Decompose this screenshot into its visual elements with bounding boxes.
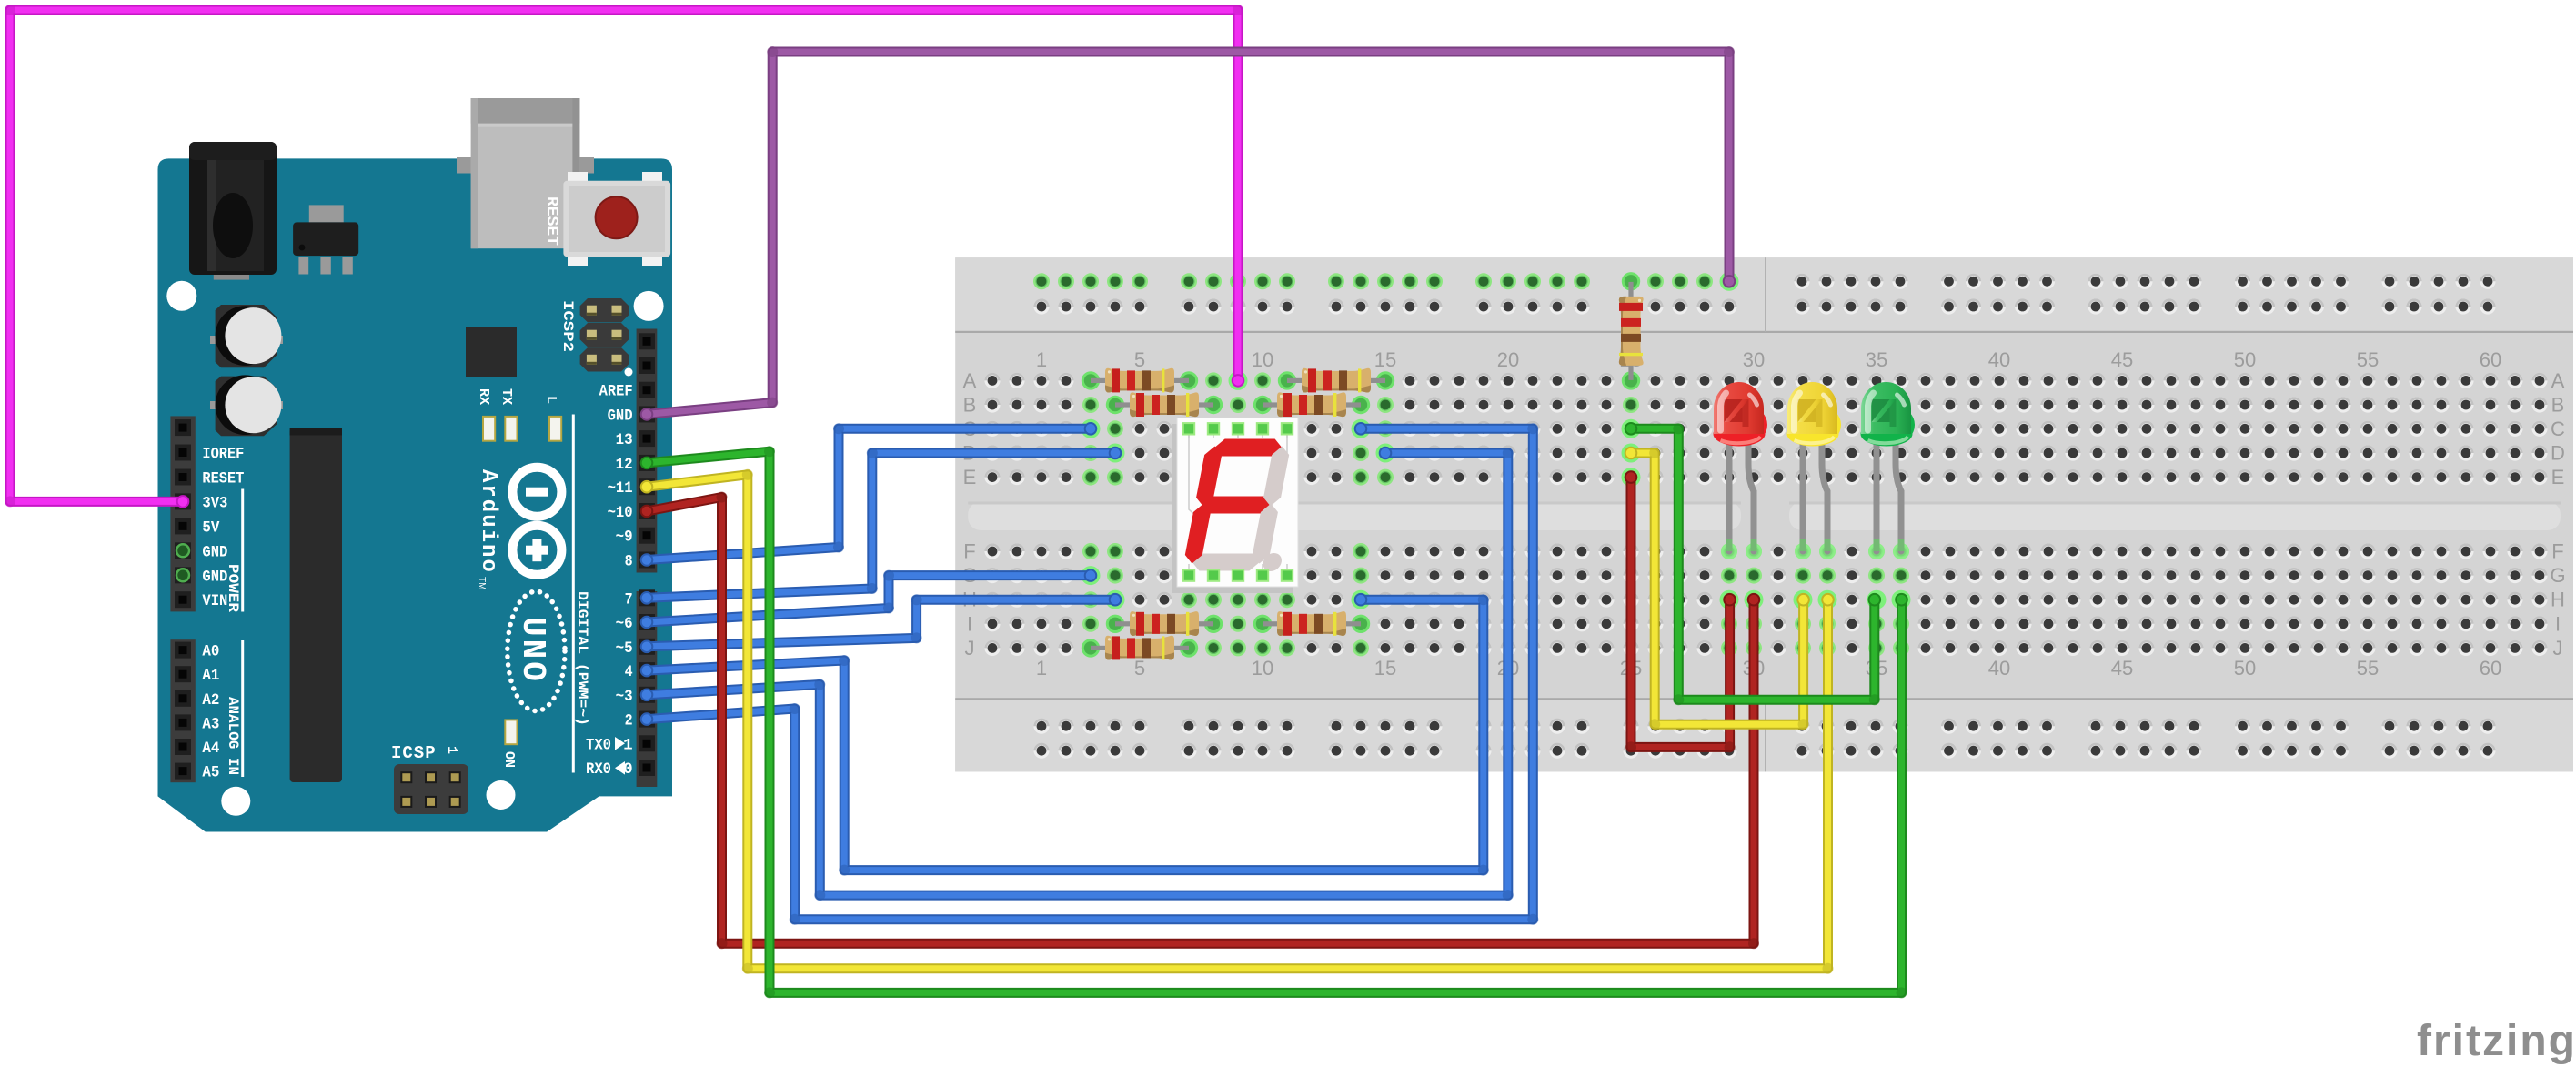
LED red (D10) legs xyxy=(1721,543,1737,559)
svg-text:RESET: RESET xyxy=(202,470,244,488)
capacitor C2 xyxy=(210,401,217,409)
svg-text:C: C xyxy=(2551,418,2565,440)
svg-text:~6: ~6 xyxy=(616,615,633,633)
svg-text:A4: A4 xyxy=(202,740,219,758)
7-segment display shadow xyxy=(1172,424,1293,593)
wire E25 to H29 xyxy=(1631,478,1730,748)
resistor R1 220 xyxy=(1082,371,1100,389)
LED green (D12) legs xyxy=(1868,543,1885,559)
svg-text:RX0: RX0 xyxy=(586,760,611,779)
Arduino logo xyxy=(512,468,561,517)
svg-text:GND: GND xyxy=(202,568,227,586)
reset button xyxy=(568,172,588,186)
svg-text:J: J xyxy=(2553,637,2563,659)
svg-text:40: 40 xyxy=(1988,657,2010,679)
svg-text:1: 1 xyxy=(1036,657,1047,679)
svg-text:15: 15 xyxy=(1374,657,1396,679)
wire D6 to G3 xyxy=(647,576,1091,622)
svg-text:45: 45 xyxy=(2111,657,2133,679)
svg-text:Arduino: Arduino xyxy=(476,469,500,574)
svg-text:2: 2 xyxy=(625,712,633,730)
svg-text:ANALOG IN: ANALOG IN xyxy=(225,697,241,775)
ATmega328 chip xyxy=(290,428,342,783)
svg-text:I: I xyxy=(967,612,972,635)
display pins xyxy=(1183,423,1194,434)
svg-text:1: 1 xyxy=(444,746,459,754)
digital header strip top xyxy=(637,329,658,573)
svg-text:F: F xyxy=(2551,540,2563,563)
ICSP header xyxy=(394,764,468,814)
svg-text:A3: A3 xyxy=(202,715,219,733)
svg-text:30: 30 xyxy=(1743,348,1765,371)
svg-text:DIGITAL (PWM=~): DIGITAL (PWM=~) xyxy=(574,591,590,726)
wire D8 to C3 xyxy=(647,428,1091,559)
svg-text:13: 13 xyxy=(616,431,633,449)
svg-text:50: 50 xyxy=(2234,657,2256,679)
LED green xyxy=(1861,382,1916,446)
svg-text:~10: ~10 xyxy=(608,504,633,522)
svg-text:A0: A0 xyxy=(202,643,219,661)
silkscreen lines xyxy=(572,415,575,773)
center channel xyxy=(968,502,1741,531)
svg-text:TX: TX xyxy=(498,388,514,405)
resistor R8 220 (GND rail to col 25) xyxy=(1622,371,1640,389)
svg-text:TM: TM xyxy=(477,577,487,589)
svg-text:ICSP2: ICSP2 xyxy=(559,300,576,352)
ICSP2 header xyxy=(580,298,629,322)
svg-text:A: A xyxy=(963,369,977,392)
svg-text:B: B xyxy=(2551,394,2565,417)
svg-text:~9: ~9 xyxy=(616,528,633,547)
svg-text:A5: A5 xyxy=(202,764,219,782)
power rails holes xyxy=(1033,273,2496,759)
svg-text:12: 12 xyxy=(616,456,633,474)
breadboard seam xyxy=(1765,257,1766,332)
svg-text:GND: GND xyxy=(202,543,227,561)
svg-text:0: 0 xyxy=(623,760,633,779)
svg-text:B: B xyxy=(963,394,977,417)
wire D3 to D15 xyxy=(647,453,1508,895)
wire D4 to H14 xyxy=(647,599,1484,870)
svg-text:4: 4 xyxy=(625,663,633,681)
resistor R2 220 xyxy=(1278,371,1296,389)
LED yellow xyxy=(1787,382,1842,446)
svg-text:35: 35 xyxy=(1866,348,1887,371)
voltage regulator xyxy=(298,257,308,275)
svg-text:5: 5 xyxy=(1134,348,1145,371)
svg-text:45: 45 xyxy=(2111,348,2133,371)
svg-text:5V: 5V xyxy=(202,518,219,537)
svg-text:~3: ~3 xyxy=(616,688,633,706)
capacitor C1 xyxy=(210,336,217,344)
svg-text:A1: A1 xyxy=(202,667,219,685)
svg-text:60: 60 xyxy=(2480,348,2501,371)
svg-text:1: 1 xyxy=(1036,348,1047,371)
display traces xyxy=(1188,428,1190,438)
analog header xyxy=(170,639,195,782)
row letter labels xyxy=(961,369,2565,659)
svg-text:RX: RX xyxy=(476,388,491,405)
wire D7 to D4 xyxy=(647,453,1115,598)
svg-text:10: 10 xyxy=(1252,657,1273,679)
svg-text:5: 5 xyxy=(1134,657,1145,679)
svg-text:ON: ON xyxy=(501,751,517,768)
svg-text:7: 7 xyxy=(625,590,633,609)
resistor R7 220 xyxy=(1082,639,1100,657)
svg-text:A: A xyxy=(2551,369,2565,392)
ON LED xyxy=(505,720,517,744)
wire D5 to H4 xyxy=(647,599,1115,647)
svg-text:E: E xyxy=(963,466,977,488)
svg-text:1: 1 xyxy=(623,736,633,754)
breadboard body xyxy=(955,257,2573,771)
svg-text:IOREF: IOREF xyxy=(202,446,244,464)
svg-text:fritzing: fritzing xyxy=(2417,1017,2576,1065)
resistor R6 220 xyxy=(1253,615,1272,633)
UNO oval xyxy=(508,591,565,710)
svg-text:VIN: VIN xyxy=(202,592,227,610)
wire D2 to C14 xyxy=(647,428,1533,919)
wire GND to rail xyxy=(647,52,1729,414)
LED yellow (D11) legs xyxy=(1795,543,1811,559)
svg-text:L: L xyxy=(543,396,558,404)
svg-text:50: 50 xyxy=(2234,348,2256,371)
svg-text:GND: GND xyxy=(608,407,633,425)
GND pins green highlight xyxy=(176,544,189,557)
svg-text:20: 20 xyxy=(1497,348,1519,371)
svg-text:H: H xyxy=(2551,589,2565,611)
resistor R3 220 xyxy=(1106,396,1124,414)
wire D11 to H33 xyxy=(647,475,1828,969)
resistor R5 220 xyxy=(1106,615,1124,633)
svg-text:55: 55 xyxy=(2357,657,2379,679)
svg-text:F: F xyxy=(963,540,975,563)
svg-text:A2: A2 xyxy=(202,691,219,710)
breadboard grid holes xyxy=(984,372,2547,656)
LED red xyxy=(1714,382,1768,446)
svg-text:ICSP: ICSP xyxy=(391,743,437,763)
svg-text:G: G xyxy=(2550,564,2565,587)
USB connector xyxy=(457,157,594,174)
svg-text:3V3: 3V3 xyxy=(202,494,227,512)
display digit F xyxy=(1182,439,1305,572)
power jack xyxy=(214,270,249,280)
Arduino Uno board xyxy=(158,158,673,831)
mounting holes xyxy=(166,281,196,311)
svg-text:J: J xyxy=(965,637,975,659)
column number labels xyxy=(1036,348,2501,679)
svg-text:15: 15 xyxy=(1374,348,1396,371)
svg-text:UNO: UNO xyxy=(514,617,551,684)
wire D12 to H36 xyxy=(647,451,1902,992)
svg-text:TX0: TX0 xyxy=(586,736,611,754)
svg-text:RESET: RESET xyxy=(542,196,560,246)
svg-text:~11: ~11 xyxy=(608,479,633,498)
svg-text:AREF: AREF xyxy=(599,383,633,401)
svg-text:60: 60 xyxy=(2480,657,2501,679)
svg-text:55: 55 xyxy=(2357,348,2379,371)
wire 3V3 to A9 xyxy=(10,10,1238,501)
digital pin holes and labels xyxy=(639,333,655,349)
wire D25 to H32 xyxy=(1631,453,1804,724)
svg-text:8: 8 xyxy=(625,553,633,571)
resistor R4 220 xyxy=(1253,396,1272,414)
wire D10 to H30 xyxy=(647,498,1754,944)
7-segment display body xyxy=(1177,418,1298,587)
digital header strip bottom xyxy=(637,591,658,787)
power header xyxy=(170,416,195,611)
svg-text:D: D xyxy=(2551,442,2565,465)
chip U2 xyxy=(466,327,517,377)
svg-text:E: E xyxy=(2551,466,2565,488)
svg-text:40: 40 xyxy=(1988,348,2010,371)
svg-text:~5: ~5 xyxy=(616,639,633,658)
svg-text:10: 10 xyxy=(1252,348,1273,371)
svg-text:I: I xyxy=(2555,612,2561,635)
wire C25 to H35 xyxy=(1631,428,1875,700)
